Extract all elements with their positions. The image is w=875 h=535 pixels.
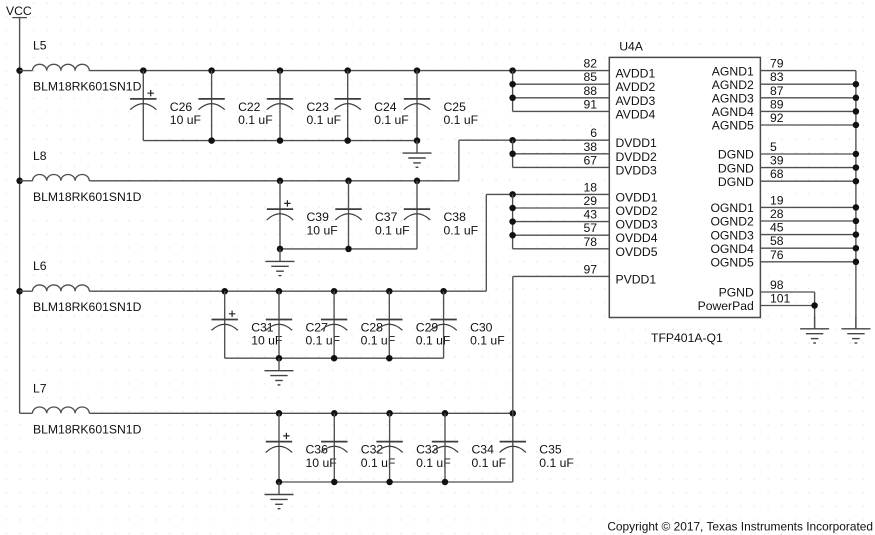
svg-text:0.1 uF: 0.1 uF xyxy=(375,223,410,237)
wire bank2 bottom rail xyxy=(280,248,417,250)
label C35 0.1 uF xyxy=(539,443,574,470)
svg-text:91: 91 xyxy=(583,97,597,111)
node junction bus OGND4 xyxy=(853,245,860,252)
node junction bank3 bottom x279 xyxy=(276,355,283,362)
wire bank3 bottom rail xyxy=(225,357,444,359)
node junction AVDD3 xyxy=(509,95,516,102)
node junction AVDD bus top xyxy=(509,67,516,74)
node junction rail3 x279 xyxy=(276,288,283,295)
capacitor C24 xyxy=(335,71,361,141)
svg-text:DGND: DGND xyxy=(718,161,754,175)
svg-text:C23: C23 xyxy=(307,100,330,114)
svg-text:0.1 uF: 0.1 uF xyxy=(361,334,396,348)
wire bank4 bottom rail xyxy=(279,481,513,483)
node junction bank3 bottom x334 xyxy=(331,355,338,362)
svg-text:0.1 uF: 0.1 uF xyxy=(444,223,479,237)
label C31 10 uF xyxy=(251,321,282,348)
label C23 0.1 uF xyxy=(307,100,342,127)
wire PowerPad pin 101 xyxy=(760,305,814,307)
wire AVDD3 xyxy=(513,97,610,99)
svg-text:AGND1: AGND1 xyxy=(712,64,754,78)
node junction bank2 bottom C39 xyxy=(277,246,284,253)
ferrite bead L5 xyxy=(33,39,90,71)
node junction PowerPad-PGND xyxy=(811,302,818,309)
ground PGND xyxy=(800,316,829,343)
op-amp U4A box (TFP401A-Q1) xyxy=(609,40,760,318)
svg-text:10 uF: 10 uF xyxy=(306,456,337,470)
svg-text:0.1 uF: 0.1 uF xyxy=(539,456,574,470)
ferrite bead L6 xyxy=(33,259,90,291)
svg-text:BLM18RK601SN1D: BLM18RK601SN1D xyxy=(33,422,142,436)
svg-text:OVDD2: OVDD2 xyxy=(616,204,658,218)
ground bank4 xyxy=(265,482,294,509)
capacitor C37 xyxy=(335,181,361,249)
svg-text:C25: C25 xyxy=(444,100,467,114)
ground bank2 xyxy=(266,249,295,276)
svg-text:C39: C39 xyxy=(307,210,330,224)
svg-text:L8: L8 xyxy=(33,149,47,163)
wire AVDD rail xyxy=(89,70,609,72)
wire AGND4 pin 89 xyxy=(760,110,856,112)
value label L6 BLM18RK601SN1D xyxy=(33,300,142,314)
capacitor C27 xyxy=(266,291,292,358)
wire OGND2 pin 28 xyxy=(760,220,856,222)
ground bank1 xyxy=(403,141,432,168)
wire AVDD4 xyxy=(513,110,610,112)
node junction bus OGND3 xyxy=(853,231,860,238)
svg-text:PGND: PGND xyxy=(719,286,754,300)
svg-text:OGND2: OGND2 xyxy=(710,215,754,229)
node junction bank1 bottom x417 xyxy=(414,137,421,144)
wire L8 lead xyxy=(20,180,33,182)
svg-text:C26: C26 xyxy=(170,100,193,114)
node junction rail1 x347 xyxy=(344,67,351,74)
node junction bank4 bottom x389 xyxy=(386,479,393,486)
svg-text:97: 97 xyxy=(583,262,597,276)
svg-text:L7: L7 xyxy=(33,381,47,395)
svg-text:6: 6 xyxy=(590,126,597,140)
wire OVDD5 xyxy=(513,248,610,250)
node junction rail3 x389 xyxy=(386,288,393,295)
svg-text:OVDD4: OVDD4 xyxy=(616,231,658,245)
wire DVDD riser xyxy=(458,140,460,181)
label C34 0.1 uF xyxy=(472,443,507,470)
ferrite bead L7 xyxy=(33,381,90,413)
pin labels right (AGND/DGND/OGND/PGND with numbers) xyxy=(698,57,791,314)
svg-text:DVDD1: DVDD1 xyxy=(616,136,658,150)
node junction rail4 x445 xyxy=(442,410,449,417)
label C24 0.1 uF xyxy=(374,100,409,127)
svg-text:58: 58 xyxy=(770,234,784,248)
svg-text:28: 28 xyxy=(770,207,784,221)
svg-text:OGND4: OGND4 xyxy=(710,242,754,256)
node junction bus AGND3 xyxy=(853,95,860,102)
node junction rail4 x512 xyxy=(510,410,517,417)
svg-text:AVDD3: AVDD3 xyxy=(616,94,656,108)
wire OGND5 pin 76 xyxy=(760,261,856,263)
node junction bank4 bottom x445 xyxy=(442,479,449,486)
wire DVDD rail xyxy=(89,180,459,182)
wire PVDD rail xyxy=(89,412,513,414)
node junction bus DGND xyxy=(853,164,860,171)
node junction trunk-L5 xyxy=(16,67,23,74)
svg-text:AGND3: AGND3 xyxy=(712,92,754,106)
value label L7 BLM18RK601SN1D xyxy=(33,422,142,436)
node junction bank3 bottom x389 xyxy=(386,355,393,362)
label C33 0.1 uF xyxy=(416,443,451,470)
svg-text:C34: C34 xyxy=(472,443,495,457)
node junction DVDD2 xyxy=(509,151,516,158)
wire AGND2 pin 83 xyxy=(760,83,856,85)
svg-text:92: 92 xyxy=(770,111,784,125)
svg-text:OGND1: OGND1 xyxy=(710,201,754,215)
svg-text:45: 45 xyxy=(770,221,784,235)
svg-text:OVDD5: OVDD5 xyxy=(616,245,658,259)
node junction bank1 bottom x280 xyxy=(277,137,284,144)
svg-text:AVDD4: AVDD4 xyxy=(616,107,656,121)
svg-text:68: 68 xyxy=(770,167,784,181)
svg-text:101: 101 xyxy=(770,292,791,306)
wire DVDD3 xyxy=(513,166,610,168)
wire OVDD2 xyxy=(513,207,610,209)
node junction bank4 bottom x334 xyxy=(331,479,338,486)
svg-text:10 uF: 10 uF xyxy=(307,223,338,237)
node junction rail1 x280 xyxy=(277,67,284,74)
svg-text:0.1 uF: 0.1 uF xyxy=(444,113,479,127)
capacitor C32 xyxy=(321,413,347,482)
svg-text:AGND2: AGND2 xyxy=(712,78,754,92)
label C36 10 uF xyxy=(306,443,337,470)
node junction bus AGND2 xyxy=(853,81,860,88)
node junction trunk-L8 xyxy=(16,178,23,185)
label C25 0.1 uF xyxy=(444,100,479,127)
node junction bus AGND4 xyxy=(853,108,860,115)
svg-text:DGND: DGND xyxy=(718,175,754,189)
svg-text:39: 39 xyxy=(770,154,784,168)
node junction rail2 x417 xyxy=(414,178,421,185)
svg-text:89: 89 xyxy=(770,97,784,111)
svg-text:98: 98 xyxy=(770,278,784,292)
label C29 0.1 uF xyxy=(416,321,451,348)
svg-text:88: 88 xyxy=(583,84,597,98)
svg-text:18: 18 xyxy=(583,180,597,194)
svg-text:0.1 uF: 0.1 uF xyxy=(238,113,273,127)
wire DGND pin 5 xyxy=(760,153,856,155)
svg-text:AGND5: AGND5 xyxy=(712,119,754,133)
svg-text:0.1 uF: 0.1 uF xyxy=(416,334,451,348)
svg-text:DGND: DGND xyxy=(718,148,754,162)
wire OGND4 pin 58 xyxy=(760,247,856,249)
wire PVDD1 xyxy=(513,275,610,277)
svg-text:AGND4: AGND4 xyxy=(712,105,754,119)
svg-text:C22: C22 xyxy=(238,100,261,114)
capacitor C35 xyxy=(500,413,526,482)
wire OVDD riser xyxy=(485,194,487,291)
capacitor C34 xyxy=(432,413,458,482)
svg-text:C35: C35 xyxy=(539,443,562,457)
svg-text:C24: C24 xyxy=(374,100,397,114)
wire DVDD1 xyxy=(459,139,609,141)
copyright notice xyxy=(607,520,873,534)
svg-text:10 uF: 10 uF xyxy=(170,113,201,127)
wire PGND pin 98 xyxy=(760,291,814,293)
node junction rail3 x443 xyxy=(440,288,447,295)
svg-text:L5: L5 xyxy=(33,39,47,53)
svg-text:OVDD3: OVDD3 xyxy=(616,218,658,232)
wire DGND pin 39 xyxy=(760,167,856,169)
svg-text:BLM18RK601SN1D: BLM18RK601SN1D xyxy=(33,190,142,204)
svg-text:10 uF: 10 uF xyxy=(251,334,282,348)
label C27 0.1 uF xyxy=(306,321,341,348)
svg-text:0.1 uF: 0.1 uF xyxy=(470,334,505,348)
svg-text:BLM18RK601SN1D: BLM18RK601SN1D xyxy=(33,300,142,314)
wire AGND3 pin 87 xyxy=(760,97,856,99)
svg-text:67: 67 xyxy=(583,153,597,167)
node junction rail1 x211 xyxy=(208,67,215,74)
wire bank1 bottom rail xyxy=(143,140,417,142)
capacitor C33 xyxy=(376,413,402,482)
wire PVDD riser xyxy=(512,276,514,413)
wire AGND1 pin 79 xyxy=(760,70,856,72)
label C22 0.1 uF xyxy=(238,100,273,127)
svg-text:BLM18RK601SN1D: BLM18RK601SN1D xyxy=(33,80,142,94)
wire AGND5 pin 92 xyxy=(760,124,856,126)
svg-text:PVDD1: PVDD1 xyxy=(616,272,657,286)
node junction bank4 bottom x279 xyxy=(276,479,283,486)
node junction rail3 x334 xyxy=(331,288,338,295)
node junction rail1 x143 xyxy=(140,67,147,74)
wire DVDD bus vertical xyxy=(512,140,514,167)
value label L8 BLM18RK601SN1D xyxy=(33,190,142,204)
capacitor C38 xyxy=(404,181,430,249)
label C37 0.1 uF xyxy=(375,210,410,237)
label C28 0.1 uF xyxy=(361,321,396,348)
svg-text:43: 43 xyxy=(583,208,597,222)
svg-text:82: 82 xyxy=(583,57,597,71)
capacitor C36 xyxy=(266,413,292,482)
svg-text:29: 29 xyxy=(583,194,597,208)
svg-text:TFP401A-Q1: TFP401A-Q1 xyxy=(651,331,723,345)
svg-text:OGND5: OGND5 xyxy=(710,256,754,270)
svg-text:C30: C30 xyxy=(470,321,493,335)
wire OVDD3 xyxy=(513,221,610,223)
wire L5 lead xyxy=(20,70,33,72)
wire DVDD2 xyxy=(513,153,610,155)
pin labels left (AVDD/DVDD/OVDD/PVDD with numbers) xyxy=(583,57,657,287)
node junction bank1 bottom x347 xyxy=(344,137,351,144)
node junction bus AGND5 xyxy=(853,122,860,129)
label C26 10 uF xyxy=(170,100,201,127)
wire L7 lead xyxy=(20,412,33,414)
svg-text:U4A: U4A xyxy=(619,40,644,54)
node junction OVDD3 xyxy=(509,218,516,225)
svg-text:87: 87 xyxy=(770,84,784,98)
wire VCC trunk xyxy=(19,18,21,413)
capacitor C39 xyxy=(267,181,293,249)
node junction rail4 x389 xyxy=(386,410,393,417)
svg-text:PowerPad: PowerPad xyxy=(698,299,754,313)
svg-text:0.1 uF: 0.1 uF xyxy=(306,334,341,348)
node junction bus OGND5 xyxy=(853,259,860,266)
node junction OVDD4 xyxy=(509,232,516,239)
svg-text:AVDD1: AVDD1 xyxy=(616,67,656,81)
node junction DVDD bus top xyxy=(509,137,516,144)
svg-text:OGND3: OGND3 xyxy=(710,228,754,242)
capacitor C30 xyxy=(430,291,456,358)
wire AVDD bus vertical xyxy=(512,71,514,112)
ferrite bead L8 xyxy=(33,149,90,181)
svg-text:78: 78 xyxy=(583,235,597,249)
svg-text:85: 85 xyxy=(583,70,597,84)
capacitor C26 xyxy=(130,71,156,141)
wire L6 lead xyxy=(20,290,33,292)
svg-text:83: 83 xyxy=(770,70,784,84)
wire OVDD rail xyxy=(89,290,486,292)
svg-text:DVDD3: DVDD3 xyxy=(616,163,658,177)
ground right bus xyxy=(841,316,870,343)
ground bank3 xyxy=(265,358,294,385)
svg-text:DVDD2: DVDD2 xyxy=(616,150,658,164)
label C30 0.1 uF xyxy=(470,321,505,348)
svg-text:OVDD1: OVDD1 xyxy=(616,190,658,204)
svg-text:0.1 uF: 0.1 uF xyxy=(374,113,409,127)
node junction rail4 x334 xyxy=(331,410,338,417)
node junction rail2 x348 xyxy=(345,178,352,185)
part number TFP401A-Q1 xyxy=(651,331,723,345)
capacitor C25 xyxy=(404,71,430,141)
node junction bank2 bottom C37 xyxy=(345,246,352,253)
wire OVDD bus vertical xyxy=(512,194,514,248)
svg-text:0.1 uF: 0.1 uF xyxy=(307,113,342,127)
svg-text:C38: C38 xyxy=(444,210,467,224)
wire right ground bus xyxy=(855,71,857,329)
node junction trunk-L6 xyxy=(16,288,23,295)
node junction rail2 x280 xyxy=(277,178,284,185)
svg-text:AVDD2: AVDD2 xyxy=(616,80,656,94)
node junction bank1 bottom x211 xyxy=(208,137,215,144)
svg-text:VCC: VCC xyxy=(6,4,32,18)
wire AVDD2 xyxy=(513,83,610,85)
svg-text:5: 5 xyxy=(770,140,777,154)
svg-text:C37: C37 xyxy=(375,210,398,224)
svg-text:L6: L6 xyxy=(33,259,47,273)
wire OGND3 pin 45 xyxy=(760,234,856,236)
label C39 10 uF xyxy=(307,210,338,237)
svg-text:57: 57 xyxy=(583,221,597,235)
svg-text:Copyright © 2017, Texas Instru: Copyright © 2017, Texas Instruments Inco… xyxy=(607,520,873,534)
node junction rail1 x417 xyxy=(414,67,421,74)
wire OVDD1 xyxy=(486,193,609,195)
node junction bus DGND xyxy=(853,178,860,185)
wire OGND1 pin 19 xyxy=(760,206,856,208)
svg-text:38: 38 xyxy=(583,140,597,154)
capacitor C23 xyxy=(267,71,293,141)
wire OVDD4 xyxy=(513,234,610,236)
wire PGND drop xyxy=(814,292,816,329)
node junction rail3 x224 xyxy=(221,288,228,295)
capacitor C28 xyxy=(321,291,347,358)
wire DGND pin 68 xyxy=(760,180,856,182)
svg-text:19: 19 xyxy=(770,193,784,207)
svg-text:79: 79 xyxy=(770,57,784,71)
node junction bus DGND xyxy=(853,151,860,158)
node junction bus OGND2 xyxy=(853,218,860,225)
label C32 0.1 uF xyxy=(361,443,396,470)
node junction rail4 x279 xyxy=(276,410,283,417)
svg-text:76: 76 xyxy=(770,248,784,262)
capacitor C31 xyxy=(212,291,238,358)
node junction OVDD2 xyxy=(509,205,516,212)
value label L5 BLM18RK601SN1D xyxy=(33,80,142,94)
label C38 0.1 uF xyxy=(444,210,479,237)
node junction OVDD bus top xyxy=(509,191,516,198)
capacitor C22 xyxy=(198,71,224,141)
capacitor C29 xyxy=(376,291,402,358)
node junction bus OGND1 xyxy=(853,204,860,211)
node junction AVDD2 xyxy=(509,81,516,88)
power flag VCC xyxy=(6,4,32,18)
svg-text:0.1 uF: 0.1 uF xyxy=(472,456,507,470)
